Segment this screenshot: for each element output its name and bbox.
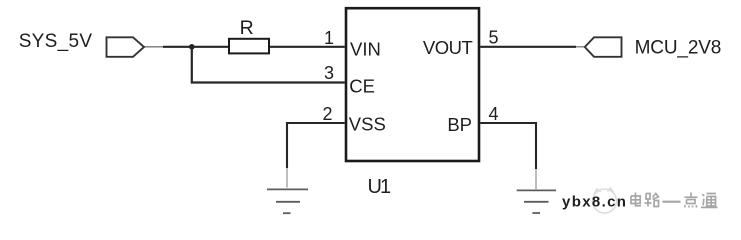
svg-text:2: 2 (322, 104, 332, 124)
svg-text:VSS: VSS (349, 114, 386, 135)
svg-text:BP: BP (447, 114, 472, 135)
svg-text:CE: CE (349, 76, 375, 97)
svg-text:VOUT: VOUT (423, 37, 473, 58)
svg-text:3: 3 (324, 63, 334, 83)
svg-text:U1: U1 (368, 176, 392, 198)
svg-text:R: R (240, 17, 254, 39)
svg-text:VIN: VIN (350, 39, 381, 60)
svg-text:4: 4 (489, 104, 499, 124)
svg-text:1: 1 (324, 28, 334, 48)
svg-text:MCU_2V8: MCU_2V8 (635, 37, 722, 58)
svg-text:SYS_5V: SYS_5V (19, 31, 93, 52)
svg-text:5: 5 (489, 27, 499, 47)
svg-text:ybx8.cn: ybx8.cn (562, 193, 627, 210)
